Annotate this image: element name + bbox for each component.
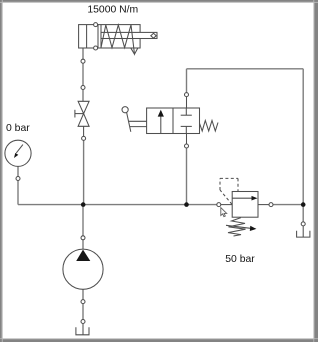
tank below pump: [76, 320, 89, 335]
pressure relief valve: [217, 178, 273, 236]
wire: cylinder port down to shutoff valve: [82, 63, 84, 85]
wire: right line down to tank: [302, 205, 304, 222]
outlet port: [258, 204, 269, 206]
wire: 2/2 valve top port up: [186, 69, 188, 93]
cylinder (single-acting, spring return): [79, 23, 157, 64]
wire: shutoff valve down to main line: [83, 140, 85, 204]
relief valve flow arrow: [232, 197, 252, 199]
svg-text:0 bar: 0 bar: [6, 123, 30, 134]
wire: main pressure line left segment: [18, 204, 217, 206]
svg-text:50 bar: 50 bar: [225, 254, 255, 265]
valve blocked position T symbols: [185, 108, 187, 115]
cylinder body port circles: [94, 23, 98, 27]
bottom port: [186, 134, 188, 145]
junction node at 2/2 valve branch: [184, 202, 189, 207]
wire: 2/2 valve bottom port down to main line: [186, 148, 188, 205]
wire: pump bottom to tank: [82, 304, 84, 320]
junction node at cylinder/pump branch: [81, 202, 86, 207]
junction node at right return line: [301, 202, 306, 207]
wire: main line right of relief valve: [273, 204, 303, 206]
cylinder rod-end diamond: [151, 33, 156, 38]
pump (fixed displacement): [63, 236, 103, 304]
pressure gauge: [5, 140, 31, 180]
return spring: [200, 121, 218, 132]
relief valve adjustable spring: [228, 218, 246, 236]
pilot line (dashed): [220, 178, 238, 204]
tank on right return line: [297, 222, 310, 237]
wire: junction down to pump: [82, 207, 84, 236]
wire: gauge drop to main line: [17, 181, 19, 205]
svg-text:15000 N/m: 15000 N/m: [87, 5, 138, 16]
hand lever: [122, 107, 128, 113]
2/2-way hand lever valve: [122, 93, 218, 148]
shutoff valve: [75, 86, 89, 141]
mouse cursor: [221, 208, 227, 217]
cylinder supply stub and port: [82, 48, 84, 59]
valve flow arrow (open position): [160, 116, 162, 134]
wire: right vertical return line: [302, 69, 304, 205]
wire: top horizontal run to right: [187, 68, 304, 70]
